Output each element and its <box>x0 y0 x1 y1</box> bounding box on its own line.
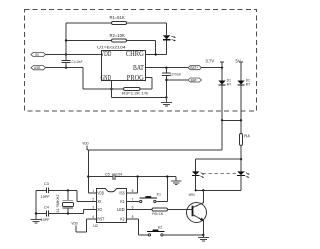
svg-text:4: 4 <box>92 215 94 219</box>
LED left indicator <box>192 171 205 190</box>
ground (crystal) <box>31 219 42 223</box>
connector flag GND input <box>31 66 46 70</box>
svg-text:VDD: VDD <box>71 222 78 226</box>
svg-text:1: 1 <box>92 189 94 193</box>
svg-text:C4: C4 <box>44 205 49 209</box>
wire GND net of U1 <box>111 80 166 97</box>
svg-text:M7: M7 <box>227 82 232 86</box>
wire BAT- run <box>165 79 188 81</box>
wire LED cathode bus <box>195 189 241 191</box>
crystal Y1 32.768KHZ <box>56 190 74 213</box>
svg-text:K1: K1 <box>157 192 161 196</box>
svg-text:7: 7 <box>132 197 134 201</box>
transistor Q1 NPN <box>167 190 206 235</box>
svg-text:XI: XI <box>97 199 101 204</box>
svg-text:PROG: PROG <box>127 74 144 82</box>
wire input ground run <box>46 68 124 91</box>
svg-text:C5: C5 <box>105 173 110 177</box>
svg-text:K2: K2 <box>158 226 162 230</box>
connector flag 5V input <box>31 52 46 56</box>
resistor R3 bottom (R3=1K) <box>127 208 168 216</box>
svg-text:BAT: BAT <box>133 64 144 72</box>
svg-text:VDD: VDD <box>101 50 112 58</box>
wire optical-coupling dashed link <box>203 172 237 174</box>
ground (VSS) <box>171 177 182 185</box>
connector flag BAT- <box>188 78 201 82</box>
capacitor C5 (104) <box>88 173 122 180</box>
svg-text:2: 2 <box>92 197 94 201</box>
svg-text:5V: 5V <box>236 58 241 63</box>
diode D1 (M7) <box>218 68 231 121</box>
svg-text:R2=10K: R2=10K <box>110 33 125 38</box>
svg-text:VDD: VDD <box>97 191 104 196</box>
svg-text:BAT-: BAT- <box>191 78 198 82</box>
resistor R2 (R2=10K) <box>66 33 156 55</box>
svg-text:8: 8 <box>132 189 134 193</box>
svg-text:LED: LED <box>117 207 125 212</box>
svg-text:104: 104 <box>116 173 122 177</box>
wire XI net <box>49 189 92 201</box>
svg-text:NPN: NPN <box>189 193 196 197</box>
svg-text:BAT+: BAT+ <box>190 66 198 70</box>
svg-text:R1=51K: R1=51K <box>110 15 125 20</box>
svg-text:R3=1.2K 1%: R3=1.2K 1% <box>122 92 148 96</box>
push button K1 <box>127 177 168 203</box>
svg-text:5: 5 <box>132 215 134 219</box>
power flag VDD (RST pull-up) <box>71 219 92 232</box>
svg-text:R3=1K: R3=1K <box>152 212 164 216</box>
LED right indicator <box>237 159 250 190</box>
svg-text:32.768KHZ: 32.768KHZ <box>56 194 60 213</box>
svg-text:3: 3 <box>92 205 94 209</box>
wire crystal ground column <box>35 190 37 219</box>
resistor R1 (R1=51K) <box>66 15 167 25</box>
svg-text:10PF: 10PF <box>41 195 51 199</box>
capacitor C2 (C2=10uF) <box>162 68 181 98</box>
svg-text:RST: RST <box>97 217 104 222</box>
svg-text:10PF: 10PF <box>41 218 51 222</box>
capacitor C3 (10PF) <box>36 182 50 199</box>
wire pin8 riser <box>127 177 138 193</box>
svg-text:C2=10uF: C2=10uF <box>170 72 181 76</box>
timer IC U2 <box>93 189 126 229</box>
connector flag BAT+ <box>188 66 201 70</box>
diode D2 (M7) <box>237 79 250 134</box>
wire VDD input <box>46 54 102 56</box>
wire XO net <box>49 210 92 215</box>
LED charge-indicator (top) <box>163 23 176 55</box>
svg-text:R4: R4 <box>244 133 250 138</box>
svg-text:C3: C3 <box>44 182 49 186</box>
resistor R4 <box>240 133 251 160</box>
capacitor C4 (10PF) <box>36 205 50 222</box>
wire LED anode link <box>196 159 241 171</box>
svg-text:K2: K2 <box>120 217 125 222</box>
U2 pin stubs and numbers <box>92 189 134 219</box>
wire diode-cathode link <box>221 119 242 121</box>
op IC U1 charger (U1=EG2104) <box>97 45 146 82</box>
svg-text:K1: K1 <box>120 199 125 204</box>
node 5V <box>236 58 244 80</box>
svg-text:VSS: VSS <box>119 191 125 196</box>
resistor R3 (R3=1.2K 1%) <box>122 77 152 95</box>
svg-text:M7: M7 <box>246 82 251 86</box>
wire VIN column with junctions <box>65 23 67 69</box>
svg-text:XO: XO <box>97 207 102 212</box>
ground (charger) <box>161 96 172 106</box>
node 3.7V <box>206 58 225 67</box>
dashed charger-module border <box>25 10 257 112</box>
svg-text:USB: USB <box>34 66 41 70</box>
wire CHRG stub <box>146 53 167 55</box>
svg-text:VDD: VDD <box>82 142 89 146</box>
power flag VDD (rail) <box>82 142 89 150</box>
svg-text:U2: U2 <box>93 224 98 228</box>
svg-text:CHRG: CHRG <box>126 50 144 58</box>
ground (emitter) <box>198 234 209 242</box>
wire VSS net <box>115 175 176 177</box>
svg-text:GND: GND <box>101 74 112 82</box>
svg-text:3.7V: 3.7V <box>206 58 215 63</box>
svg-text:U1=EG2104: U1=EG2104 <box>97 45 126 49</box>
capacitor C1 (C1=10uF) <box>62 60 83 64</box>
push button K2 <box>131 219 203 236</box>
wire BAT net <box>146 67 224 69</box>
svg-text:C1=10uF: C1=10uF <box>72 60 83 64</box>
wire VDD rail to lower circuit <box>87 120 222 193</box>
svg-text:6: 6 <box>132 205 134 209</box>
